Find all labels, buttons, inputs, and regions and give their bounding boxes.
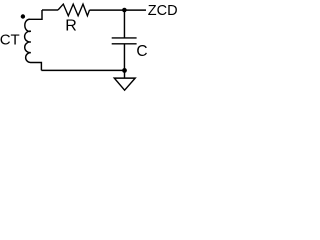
svg-text:CT: CT — [0, 31, 20, 48]
node junction top — [122, 8, 127, 13]
svg-text:C: C — [136, 43, 147, 60]
capacitor C — [112, 38, 137, 44]
transformer secondary winding CT — [25, 10, 42, 70]
wire bottom rail — [41, 69, 124, 71]
ground symbol — [114, 78, 135, 90]
wire cap lower lead — [123, 44, 125, 71]
node junction bottom — [122, 68, 127, 73]
wire top rail left — [42, 9, 58, 11]
wire cap upper lead — [123, 10, 125, 38]
wire top rail right — [90, 9, 147, 11]
wire ground lead — [124, 70, 126, 78]
resistor R — [58, 4, 90, 16]
polarity dot — [21, 14, 25, 18]
svg-text:R: R — [65, 18, 77, 35]
svg-text:ZCD: ZCD — [148, 3, 178, 19]
